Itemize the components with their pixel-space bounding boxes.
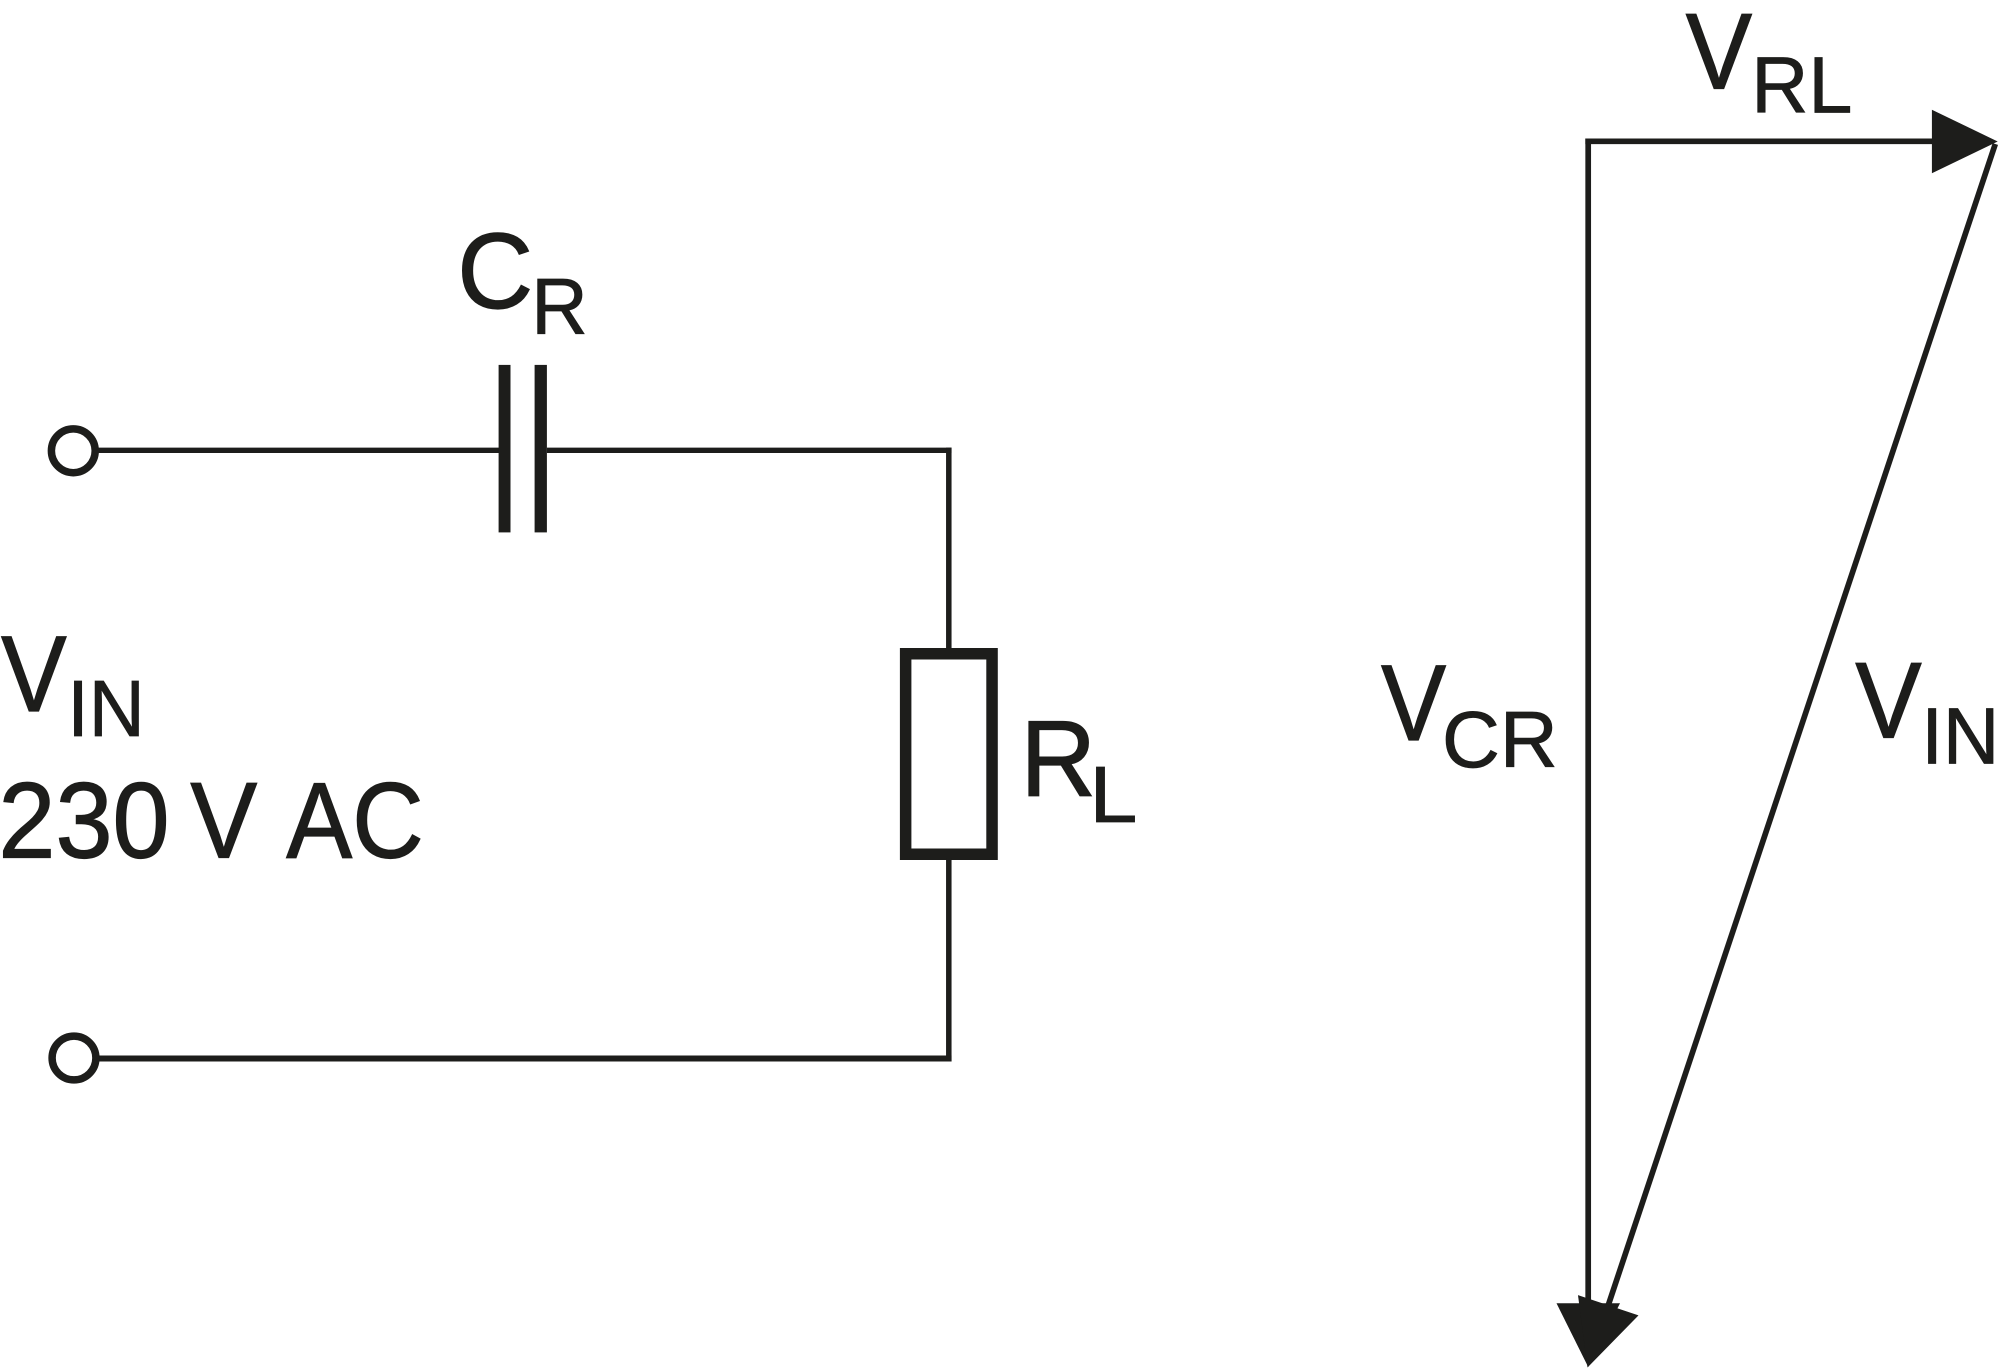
phasor VIN arrowhead	[1578, 1295, 1639, 1367]
svg-text:V: V	[1686, 0, 1752, 112]
wire from resistor bottom to bottom rail	[946, 858, 952, 1062]
wire down from corner to resistor top	[946, 448, 952, 650]
svg-text:230: 230	[0, 761, 170, 881]
svg-text:R: R	[531, 261, 588, 351]
phasor VIN arrow shaft	[1608, 144, 1995, 1305]
svg-text:V: V	[190, 761, 257, 881]
phasor VCR arrow shaft	[1585, 138, 1591, 1305]
svg-text:RL: RL	[1751, 40, 1852, 129]
phasor VCR arrowhead	[1557, 1303, 1621, 1367]
label VIN (phasor)	[1855, 640, 1921, 761]
svg-text:V: V	[1855, 640, 1921, 761]
svg-text:C: C	[457, 211, 533, 332]
label RL	[1020, 699, 1096, 820]
phasor VRL arrow shaft	[1585, 138, 1933, 144]
svg-text:IN: IN	[67, 664, 145, 753]
label VIN 230 V AC	[1, 614, 67, 734]
svg-text:V: V	[1381, 642, 1446, 763]
label CR	[457, 211, 533, 332]
input terminal (top)	[51, 429, 95, 473]
label VCR	[1381, 642, 1446, 763]
wire from top terminal to capacitor	[97, 448, 500, 453]
input terminal (bottom)	[52, 1036, 96, 1080]
capacitor CR plate (left)	[499, 365, 511, 533]
label VRL	[1686, 0, 1752, 112]
phasor VRL arrowhead	[1932, 110, 1998, 174]
bottom wire to bottom terminal	[97, 1056, 952, 1062]
capacitor CR plate (right)	[535, 365, 547, 533]
svg-text:IN: IN	[1921, 691, 1999, 781]
svg-text:R: R	[1020, 699, 1096, 820]
wire from capacitor to top-right corner	[547, 448, 952, 453]
svg-text:V: V	[1, 614, 67, 734]
svg-text:CR: CR	[1442, 695, 1558, 784]
svg-text:L: L	[1089, 750, 1137, 839]
resistor RL	[906, 654, 992, 855]
svg-text:AC: AC	[286, 760, 423, 881]
